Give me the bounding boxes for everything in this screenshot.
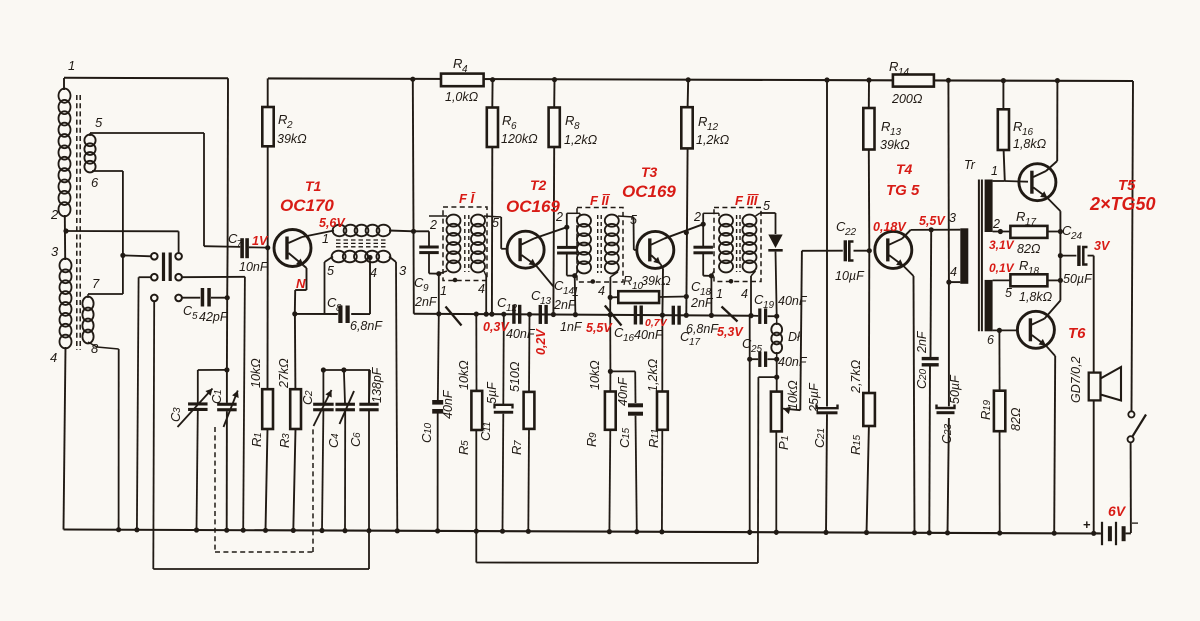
svg-text:R: R — [456, 446, 471, 455]
svg-text:R: R — [978, 411, 993, 420]
svg-text:4: 4 — [462, 64, 468, 75]
svg-text:25µF: 25µF — [807, 382, 821, 413]
svg-text:10kΩ: 10kΩ — [457, 360, 471, 390]
svg-text:21: 21 — [816, 428, 827, 440]
svg-text:2nF: 2nF — [414, 295, 438, 309]
svg-text:24: 24 — [1070, 231, 1083, 242]
svg-text:40nF: 40nF — [506, 327, 536, 341]
svg-text:1: 1 — [780, 435, 791, 441]
svg-text:19: 19 — [763, 300, 775, 311]
svg-text:5: 5 — [192, 311, 198, 322]
svg-text:R: R — [277, 439, 292, 448]
svg-text:2nF: 2nF — [915, 330, 929, 354]
svg-text:R: R — [623, 273, 632, 288]
svg-text:11: 11 — [482, 422, 493, 432]
svg-text:R: R — [278, 112, 287, 127]
svg-text:13: 13 — [890, 127, 902, 138]
svg-text:R: R — [889, 59, 898, 74]
svg-text:138pF: 138pF — [370, 366, 384, 403]
svg-text:2: 2 — [304, 390, 315, 397]
svg-text:1,8kΩ: 1,8kΩ — [1019, 290, 1053, 304]
svg-text:R: R — [453, 56, 462, 71]
svg-text:2: 2 — [286, 120, 293, 131]
svg-text:N: N — [296, 276, 306, 291]
svg-text:39kΩ: 39kΩ — [641, 274, 671, 288]
svg-text:17: 17 — [689, 337, 701, 348]
svg-text:40nF: 40nF — [616, 376, 630, 406]
svg-text:6: 6 — [91, 175, 99, 190]
svg-text:5,5V: 5,5V — [586, 321, 613, 335]
svg-text:0,18V: 0,18V — [873, 220, 907, 234]
svg-text:R: R — [584, 438, 599, 447]
svg-text:10: 10 — [423, 422, 434, 434]
svg-text:1: 1 — [322, 232, 329, 246]
svg-text:R: R — [1013, 119, 1022, 134]
svg-text:2: 2 — [992, 217, 1000, 231]
svg-text:40nF: 40nF — [634, 328, 664, 342]
svg-text:5: 5 — [95, 115, 103, 130]
svg-text:5,6V: 5,6V — [319, 216, 346, 230]
svg-text:1: 1 — [716, 287, 723, 301]
svg-text:40nF: 40nF — [441, 389, 455, 419]
svg-text:1: 1 — [68, 58, 75, 73]
svg-text:1,0kΩ: 1,0kΩ — [445, 90, 479, 104]
svg-text:40nF: 40nF — [778, 294, 808, 308]
svg-text:39kΩ: 39kΩ — [277, 132, 307, 146]
svg-text:3,1V: 3,1V — [989, 238, 1015, 252]
svg-text:1V: 1V — [252, 234, 269, 248]
svg-text:8: 8 — [336, 303, 342, 314]
svg-text:40nF: 40nF — [778, 355, 808, 369]
svg-text:2: 2 — [50, 207, 59, 222]
svg-text:1: 1 — [253, 432, 264, 438]
svg-text:0,7V: 0,7V — [645, 317, 668, 329]
svg-text:3V: 3V — [1094, 239, 1111, 253]
svg-text:50µF: 50µF — [1063, 272, 1093, 286]
svg-text:2: 2 — [429, 218, 437, 232]
svg-text:1: 1 — [440, 284, 447, 298]
svg-text:17: 17 — [1025, 217, 1037, 228]
svg-text:4: 4 — [598, 284, 605, 298]
svg-text:7: 7 — [92, 276, 100, 291]
svg-text:R: R — [646, 439, 661, 448]
svg-text:5: 5 — [763, 199, 770, 213]
svg-text:510Ω: 510Ω — [508, 361, 522, 392]
svg-text:7: 7 — [513, 440, 524, 446]
svg-text:5µF: 5µF — [485, 381, 499, 404]
svg-text:2: 2 — [693, 210, 701, 224]
svg-text:10kΩ: 10kΩ — [786, 380, 800, 410]
svg-text:T6: T6 — [1068, 325, 1086, 342]
svg-text:10µF: 10µF — [835, 269, 865, 283]
svg-text:R: R — [1019, 258, 1028, 273]
svg-text:T3: T3 — [641, 164, 658, 180]
svg-text:1,2kΩ: 1,2kΩ — [564, 133, 598, 147]
svg-text:4: 4 — [50, 350, 57, 365]
svg-text:5: 5 — [327, 264, 334, 278]
svg-text:20: 20 — [918, 368, 929, 381]
svg-text:10nF: 10nF — [239, 260, 269, 274]
svg-text:12: 12 — [506, 303, 518, 314]
svg-text:9: 9 — [588, 432, 599, 438]
svg-text:0,2V: 0,2V — [534, 328, 548, 355]
svg-text:2,7kΩ: 2,7kΩ — [849, 359, 863, 394]
svg-text:4: 4 — [478, 282, 485, 296]
svg-text:9: 9 — [423, 283, 429, 294]
svg-text:11: 11 — [650, 429, 661, 439]
svg-text:4: 4 — [370, 266, 377, 280]
svg-text:0,3V: 0,3V — [483, 320, 510, 334]
svg-text:1,2kΩ: 1,2kΩ — [646, 358, 660, 392]
svg-text:3: 3 — [172, 407, 183, 413]
svg-text:R: R — [502, 113, 511, 128]
svg-text:27kΩ: 27kΩ — [277, 358, 291, 389]
svg-text:82Ω: 82Ω — [1009, 407, 1023, 431]
svg-text:1: 1 — [991, 164, 998, 178]
svg-text:16: 16 — [623, 333, 635, 344]
svg-text:OC170: OC170 — [280, 196, 334, 215]
svg-text:10kΩ: 10kΩ — [588, 360, 602, 390]
svg-text:+: + — [1083, 517, 1091, 532]
svg-text:1,8kΩ: 1,8kΩ — [1013, 137, 1047, 151]
svg-text:25: 25 — [750, 344, 763, 355]
svg-text:T4: T4 — [896, 161, 913, 177]
svg-text:6: 6 — [511, 121, 517, 132]
svg-text:F ĪĪĪ: F ĪĪĪ — [735, 193, 760, 208]
svg-text:2nF: 2nF — [690, 296, 714, 310]
svg-text:P: P — [776, 441, 791, 450]
svg-text:5: 5 — [1005, 286, 1012, 300]
svg-text:R: R — [565, 113, 574, 128]
svg-text:1: 1 — [213, 389, 224, 395]
svg-text:T2: T2 — [530, 177, 547, 193]
svg-text:2×TG50: 2×TG50 — [1089, 194, 1156, 214]
svg-text:6,8nF: 6,8nF — [350, 319, 383, 333]
svg-text:3: 3 — [51, 244, 59, 259]
svg-text:R: R — [698, 114, 707, 129]
svg-text:15: 15 — [852, 434, 863, 446]
svg-text:19: 19 — [982, 399, 993, 411]
svg-text:5,5V: 5,5V — [919, 214, 946, 228]
svg-text:14: 14 — [898, 67, 910, 78]
svg-text:5,3V: 5,3V — [717, 325, 744, 339]
svg-text:1nF: 1nF — [560, 320, 583, 334]
svg-text:R: R — [509, 446, 524, 455]
svg-text:R: R — [848, 446, 863, 455]
svg-text:GD7/0,2: GD7/0,2 — [1069, 356, 1083, 403]
svg-text:2nF: 2nF — [553, 298, 577, 312]
svg-text:3: 3 — [281, 433, 292, 439]
svg-text:18: 18 — [1028, 266, 1040, 277]
svg-text:22: 22 — [844, 227, 857, 238]
svg-text:8: 8 — [91, 341, 99, 356]
svg-text:7: 7 — [237, 239, 243, 250]
svg-text:50µF: 50µF — [948, 374, 962, 404]
svg-text:4: 4 — [330, 433, 341, 439]
svg-text:5: 5 — [460, 440, 471, 446]
svg-text:6: 6 — [987, 333, 994, 347]
svg-text:23: 23 — [943, 423, 954, 436]
svg-text:4: 4 — [741, 287, 748, 301]
svg-text:4: 4 — [950, 265, 957, 279]
svg-text:8: 8 — [574, 121, 580, 132]
svg-text:OC169: OC169 — [622, 182, 676, 201]
svg-text:F Ī: F Ī — [459, 191, 477, 206]
svg-text:6: 6 — [352, 432, 363, 438]
svg-text:F ĪĪ: F ĪĪ — [590, 193, 611, 208]
svg-text:39kΩ: 39kΩ — [880, 138, 910, 152]
svg-text:12: 12 — [707, 122, 719, 133]
svg-text:OC169: OC169 — [506, 197, 560, 216]
svg-text:5: 5 — [630, 213, 637, 227]
svg-text:82Ω: 82Ω — [1017, 242, 1041, 256]
svg-text:6,8nF: 6,8nF — [686, 322, 719, 336]
svg-text:15: 15 — [621, 427, 632, 439]
svg-text:Tr: Tr — [964, 158, 976, 172]
svg-text:TG 5: TG 5 — [886, 182, 920, 199]
svg-text:5: 5 — [492, 216, 499, 230]
svg-text:Dł.: Dł. — [788, 330, 803, 344]
svg-text:42pF: 42pF — [199, 310, 229, 324]
svg-text:200Ω: 200Ω — [891, 92, 923, 106]
svg-text:120kΩ: 120kΩ — [501, 132, 538, 146]
svg-text:T1: T1 — [305, 178, 322, 194]
svg-text:T5: T5 — [1118, 177, 1136, 194]
svg-text:3: 3 — [949, 211, 956, 225]
svg-text:1,2kΩ: 1,2kΩ — [696, 133, 730, 147]
svg-text:13: 13 — [540, 296, 552, 307]
svg-text:0,1V: 0,1V — [989, 261, 1015, 275]
svg-text:R: R — [881, 119, 890, 134]
svg-text:−: − — [1132, 516, 1139, 530]
svg-text:R: R — [1016, 209, 1025, 224]
svg-text:3: 3 — [399, 263, 407, 278]
svg-text:R: R — [249, 438, 264, 447]
svg-text:10kΩ: 10kΩ — [249, 358, 263, 388]
svg-text:6V: 6V — [1108, 503, 1127, 519]
svg-text:14: 14 — [563, 286, 575, 297]
